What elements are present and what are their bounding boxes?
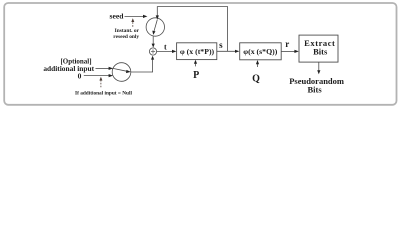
svg-text:If additional input = Null: If additional input = Null <box>75 90 132 96</box>
wire S1 to adder <box>152 36 154 44</box>
arrowhead S1 arm <box>152 31 155 35</box>
wire S2 to adder <box>131 59 153 72</box>
svg-text:Q: Q <box>252 74 260 85</box>
switch S1 arm <box>154 20 157 32</box>
svg-text:s: s <box>219 40 223 50</box>
switch S1 (seed / s selector) <box>146 18 164 36</box>
svg-text:Bits: Bits <box>308 84 323 94</box>
wire box3 down <box>318 62 320 71</box>
arrowhead additional input <box>109 67 113 70</box>
svg-text:P: P <box>193 70 199 81</box>
arrowhead seed <box>143 15 147 18</box>
arrowhead r <box>294 50 298 53</box>
wire additional input to S2 <box>96 67 110 69</box>
wire box2 to box3 (r) <box>281 50 295 52</box>
wire 0 to S2 <box>84 75 110 77</box>
switch S2 arm <box>113 68 127 71</box>
svg-text:r: r <box>285 39 289 49</box>
wire seed to S1 <box>125 15 144 17</box>
wire box1 to box2 (s) <box>217 50 236 52</box>
border frame <box>4 3 396 105</box>
arrowhead output <box>317 70 320 74</box>
arrowhead s <box>235 50 239 53</box>
arrowhead into adder bottom <box>151 56 154 60</box>
box B1 phi(x(t*P)) <box>177 43 217 60</box>
svg-text:0: 0 <box>78 72 82 81</box>
arrowhead t <box>172 50 176 53</box>
arrowhead 0 <box>109 74 113 77</box>
dashed arrow if-null <box>100 80 102 88</box>
svg-text:φ (x (t*P)): φ (x (t*P)) <box>180 47 215 56</box>
wire P to box1 <box>195 63 197 66</box>
dashed arrow instantiate <box>132 21 134 26</box>
svg-text:seed: seed <box>110 12 125 21</box>
wire feedback s to switch <box>157 7 227 52</box>
switch S2 (additional input selector) <box>112 63 131 82</box>
arrowhead into S1 top <box>156 15 159 19</box>
wire Q to box2 <box>257 64 259 67</box>
svg-text:reseed only: reseed only <box>113 34 139 40</box>
svg-text:φ(x (s*Q)): φ(x (s*Q)) <box>243 47 277 56</box>
svg-text:additional input: additional input <box>43 64 94 73</box>
box B3 Extract Bits <box>299 35 338 62</box>
adder A1 <box>149 48 156 55</box>
arrowhead Q <box>256 60 259 64</box>
svg-text:t: t <box>164 43 167 52</box>
box B2 phi(x(s*Q)) <box>240 43 282 60</box>
arrowhead S2 arm <box>126 70 131 73</box>
arrowhead P <box>194 60 197 64</box>
svg-text:Bits: Bits <box>313 47 328 57</box>
wire adder to box1 (t) <box>157 51 173 53</box>
arrowhead into adder top <box>152 44 155 48</box>
